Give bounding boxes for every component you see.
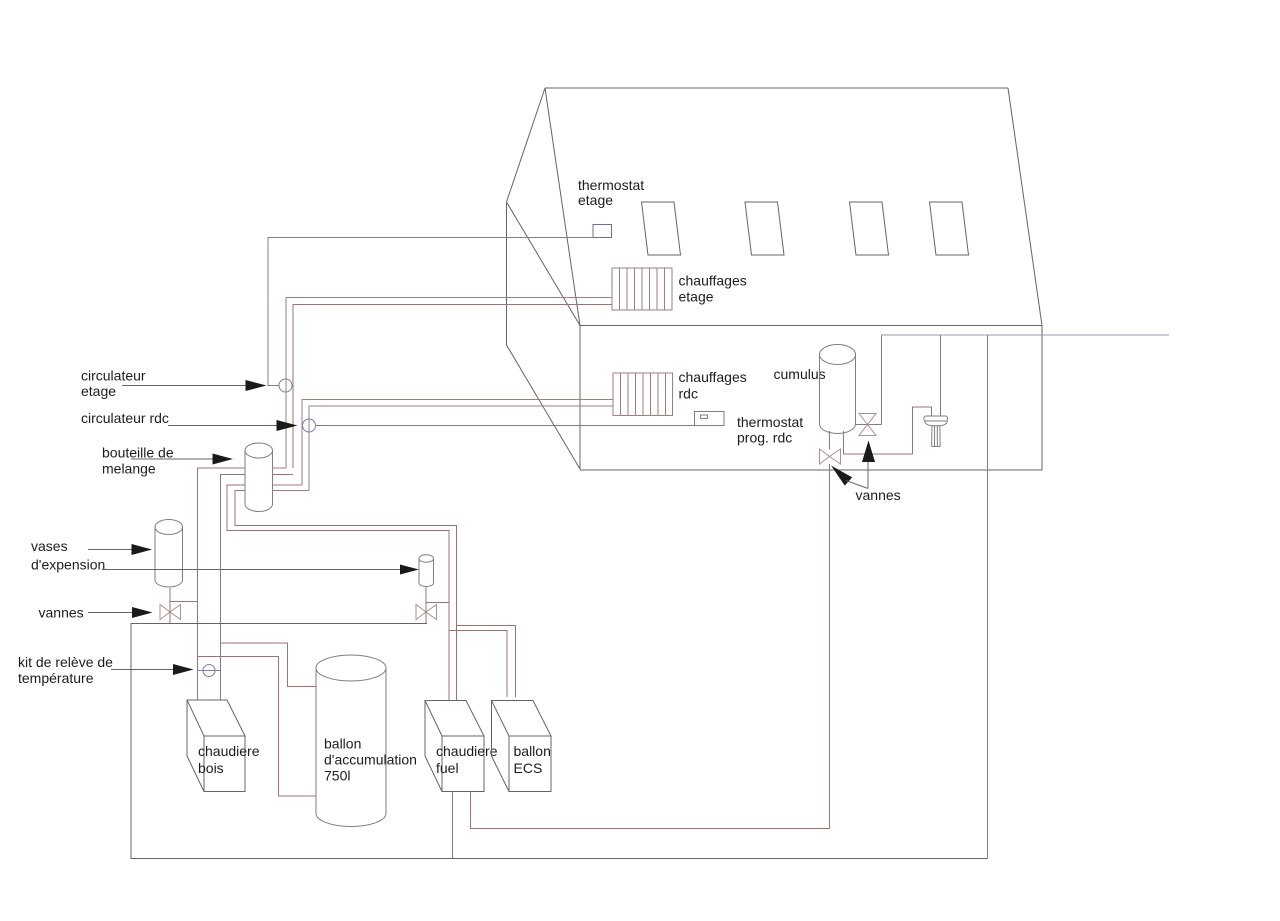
radiator chauffages rdc: [613, 373, 673, 416]
wire circulateur rdc to thermostat prog rdc: [316, 425, 695, 427]
house gable left wall edge: [506, 202, 508, 345]
svg-text:vases: vases: [31, 538, 68, 554]
valve cumulus drain (horizontal bowtie): [820, 449, 841, 464]
arrowhead bouteille: [213, 454, 234, 465]
arrow line vannes left: [88, 612, 134, 614]
svg-text:circulateur: circulateur: [81, 368, 146, 384]
cold water into cumulus: [856, 424, 882, 426]
cold water drop to basin: [940, 335, 942, 416]
svg-text:chaudiere: chaudiere: [436, 743, 498, 759]
cold water main line: [882, 334, 1170, 336]
kit de releve link pipe: [198, 670, 221, 672]
svg-text:etage: etage: [679, 289, 714, 305]
house front top edge: [580, 325, 1042, 327]
pointer line vannes up: [867, 462, 869, 489]
pipe ECS branch A: [449, 631, 507, 698]
pipe cumulus loop riser: [829, 464, 831, 829]
svg-text:750l: 750l: [324, 768, 350, 784]
arrow line bouteille: [131, 458, 215, 460]
thermostat prog rdc box: [695, 412, 725, 426]
pipe etage return (radiator bottom): [293, 305, 612, 469]
arrow line circulateur rdc: [168, 425, 279, 427]
arrow line circulateur etage: [122, 385, 248, 387]
ballon ECS box: [492, 701, 552, 792]
pipe vase2 to fuel riser: [426, 602, 449, 604]
pipe fuel boiler to cumulus loop: [471, 792, 830, 829]
house roof right slant: [1008, 88, 1042, 326]
house gable left slant: [507, 88, 546, 202]
pipe vase1 tee to boiler main: [170, 601, 198, 603]
wire thermostat etage to circulateur etage: [268, 238, 593, 386]
skylight 1: [642, 202, 681, 255]
svg-text:etage: etage: [578, 192, 613, 208]
pipe bouteille R2 up (etage return riser): [273, 474, 294, 476]
circulateur etage pump circle: [279, 379, 292, 392]
vase expansion 1 cylinder: [155, 520, 183, 588]
svg-text:vannes: vannes: [856, 487, 901, 503]
pipe rdc return (radiator bottom): [309, 406, 613, 491]
valve vanne 1 (vase 1): [160, 605, 181, 620]
arrow line kit: [111, 669, 175, 671]
cumulus cylinder: [820, 345, 856, 434]
house front right wall: [1041, 326, 1043, 471]
arrowhead circulateur etage: [246, 380, 267, 391]
thermostat etage box: [593, 225, 612, 238]
pipe tank upper link from return riser: [221, 643, 317, 687]
svg-text:thermostat: thermostat: [737, 414, 803, 430]
arrow line vase 1: [88, 549, 133, 551]
svg-text:circulateur rdc: circulateur rdc: [81, 410, 169, 426]
ballon accumulation cylinder: [316, 655, 386, 827]
pointer line vannes diagonal: [846, 481, 868, 489]
svg-text:prog. rdc: prog. rdc: [737, 430, 792, 446]
house front bottom edge: [580, 469, 1042, 471]
svg-text:chauffages: chauffages: [679, 273, 747, 289]
svg-text:chauffages: chauffages: [679, 369, 747, 385]
boiler room box: [131, 624, 988, 859]
cold water drop to cumulus valve: [881, 335, 883, 425]
vase expansion 2 cylinder: [419, 555, 434, 587]
pipe etage supply (radiator top): [286, 298, 612, 469]
skylight 3: [850, 202, 889, 255]
pipe bois supply: bouteille L1 down to chaudiere bois: [198, 468, 246, 700]
pipe vase2 to valve 2: [425, 587, 427, 624]
hot water pipe cumulus to basin: [844, 407, 932, 454]
pipe tank lower link from supply riser: [198, 657, 317, 797]
svg-text:cumulus: cumulus: [774, 366, 826, 382]
pipe fuel loop A: bouteille L3 to fuel boiler: [227, 485, 449, 701]
house roof ridge: [545, 87, 1008, 89]
arrow line vase 2: [102, 569, 401, 571]
chaudiere bois box: [187, 700, 245, 792]
svg-text:rdc: rdc: [679, 386, 698, 402]
svg-text:thermostat: thermostat: [578, 177, 644, 193]
pipe vase1 to valve: [169, 588, 171, 624]
cold water drop right side room edge: [987, 335, 989, 859]
valve vanne 2 (vase 2): [416, 605, 437, 620]
svg-text:bouteille de: bouteille de: [102, 445, 174, 461]
arrowhead kit: [173, 664, 194, 675]
skylight 2: [745, 202, 784, 255]
pipe bouteille R3 (rdc riser): [273, 484, 303, 486]
house gable bottom diagonal: [507, 345, 581, 469]
svg-text:température: température: [18, 670, 94, 686]
house gable eave diagonal: [507, 202, 581, 326]
chaudiere fuel box: [425, 701, 484, 792]
pipe fuel loop B: bouteille L4 to fuel boiler: [235, 491, 457, 701]
svg-text:d'expension: d'expension: [31, 557, 105, 573]
svg-text:etage: etage: [81, 383, 116, 399]
house roof front slope edge (apex to front-left corner): [545, 88, 580, 326]
svg-text:kit de relève de: kit de relève de: [18, 654, 113, 670]
pipe bouteille R1 up to circulateur etage: [273, 467, 287, 469]
arrowhead vannes left: [132, 607, 153, 618]
pipe bois return: bouteille L2 down to chaudiere bois: [221, 475, 246, 701]
pipe rdc supply (radiator top): [302, 400, 613, 486]
pipe ECS branch B: [457, 626, 516, 698]
svg-text:d'accumulation: d'accumulation: [324, 752, 417, 768]
circulateur rdc pump circle: [303, 419, 316, 432]
valve on cold water (vertical bowtie): [859, 414, 876, 436]
arrowhead vase 1: [132, 544, 153, 555]
thermostat prog rdc display: [701, 415, 708, 419]
arrowhead vase 2: [400, 565, 419, 575]
svg-text:bois: bois: [198, 760, 224, 776]
pipe fuel boiler drain to room bottom: [452, 792, 454, 859]
skylight 4: [930, 202, 969, 255]
svg-text:chaudiere: chaudiere: [198, 743, 260, 759]
arrowhead vannes up: [862, 441, 875, 463]
bouteille de melange cylinder: [245, 443, 273, 512]
svg-text:vannes: vannes: [39, 605, 84, 621]
pipe bouteille R4 (rdc riser): [273, 490, 310, 492]
svg-text:ECS: ECS: [514, 760, 543, 776]
svg-text:fuel: fuel: [436, 760, 459, 776]
pipe cumulus drain to valve: [829, 431, 831, 450]
arrowhead circulateur rdc: [277, 420, 298, 431]
radiator chauffages etage: [612, 268, 672, 310]
basin (lavabo): [924, 416, 948, 447]
kit de releve circle: [203, 665, 215, 677]
svg-text:ballon: ballon: [324, 736, 361, 752]
svg-text:melange: melange: [102, 461, 156, 477]
arrowhead vannes diagonal: [831, 466, 852, 486]
svg-text:ballon: ballon: [514, 743, 551, 759]
house front left wall: [579, 326, 581, 470]
